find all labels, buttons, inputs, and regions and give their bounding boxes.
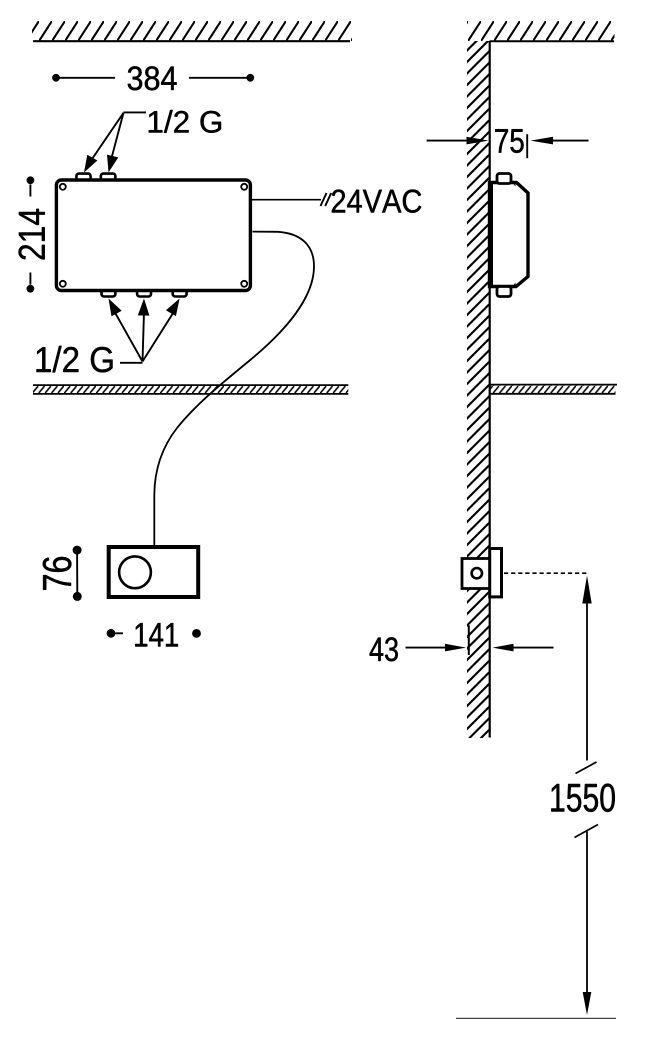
control knob [119, 556, 151, 588]
side view bottom tab [497, 287, 511, 297]
bottom outlet tab 2 [137, 286, 151, 297]
dimension 76 (vertical) [43, 546, 82, 601]
lower wall strip (left view) [33, 385, 348, 394]
corner screw bottom-left [60, 281, 66, 287]
recessed valve body (side view) [462, 559, 490, 589]
label 24VAC [332, 190, 421, 213]
wall hatch (section) [467, 41, 490, 738]
corner screw top-right [241, 184, 247, 190]
top inlet tab 1 [76, 174, 90, 186]
dimension 384 [52, 66, 254, 90]
top inlet tab 2 [101, 174, 116, 186]
ceiling hatch band (left view) [32, 21, 352, 41]
remote control unit (front view) [109, 547, 199, 597]
dimension 1550 [551, 576, 615, 1016]
dimension 43 [370, 625, 554, 661]
lower wall strip (right view) [490, 385, 618, 394]
cover plate (side view) [490, 549, 502, 597]
control box (front view) [56, 180, 250, 291]
double-slash mark [321, 193, 332, 206]
24VAC leader line [252, 199, 321, 201]
ceiling hatch band (right view) [467, 21, 615, 41]
leader arrow to inlet 2 [107, 113, 124, 173]
label 1/2 G (top inlets) [124, 110, 222, 133]
control box (side view) [490, 181, 529, 288]
corner screw bottom-right [241, 281, 247, 287]
bottom outlet tab 1 [102, 286, 116, 297]
dimension 75 [427, 129, 589, 158]
valve screw [472, 568, 482, 578]
corner screw top-left [60, 184, 66, 190]
bottom outlet tab 3 [173, 286, 187, 297]
dimension 141 [107, 623, 201, 646]
label 1/2 G (bottom outlets) [37, 346, 143, 373]
leader arrow to outlet 2 [138, 299, 150, 362]
floor line [456, 1017, 616, 1019]
dimension 214 (vertical) [19, 176, 45, 292]
cable from box to remote control [154, 232, 314, 548]
leader arrow to inlet 1 [84, 113, 124, 173]
leader arrow to outlet 3 [143, 299, 180, 362]
wall surface line [489, 41, 491, 738]
side view top tab [497, 174, 511, 184]
centreline (dashed) [504, 572, 589, 574]
leader arrow to outlet 1 [109, 299, 143, 362]
